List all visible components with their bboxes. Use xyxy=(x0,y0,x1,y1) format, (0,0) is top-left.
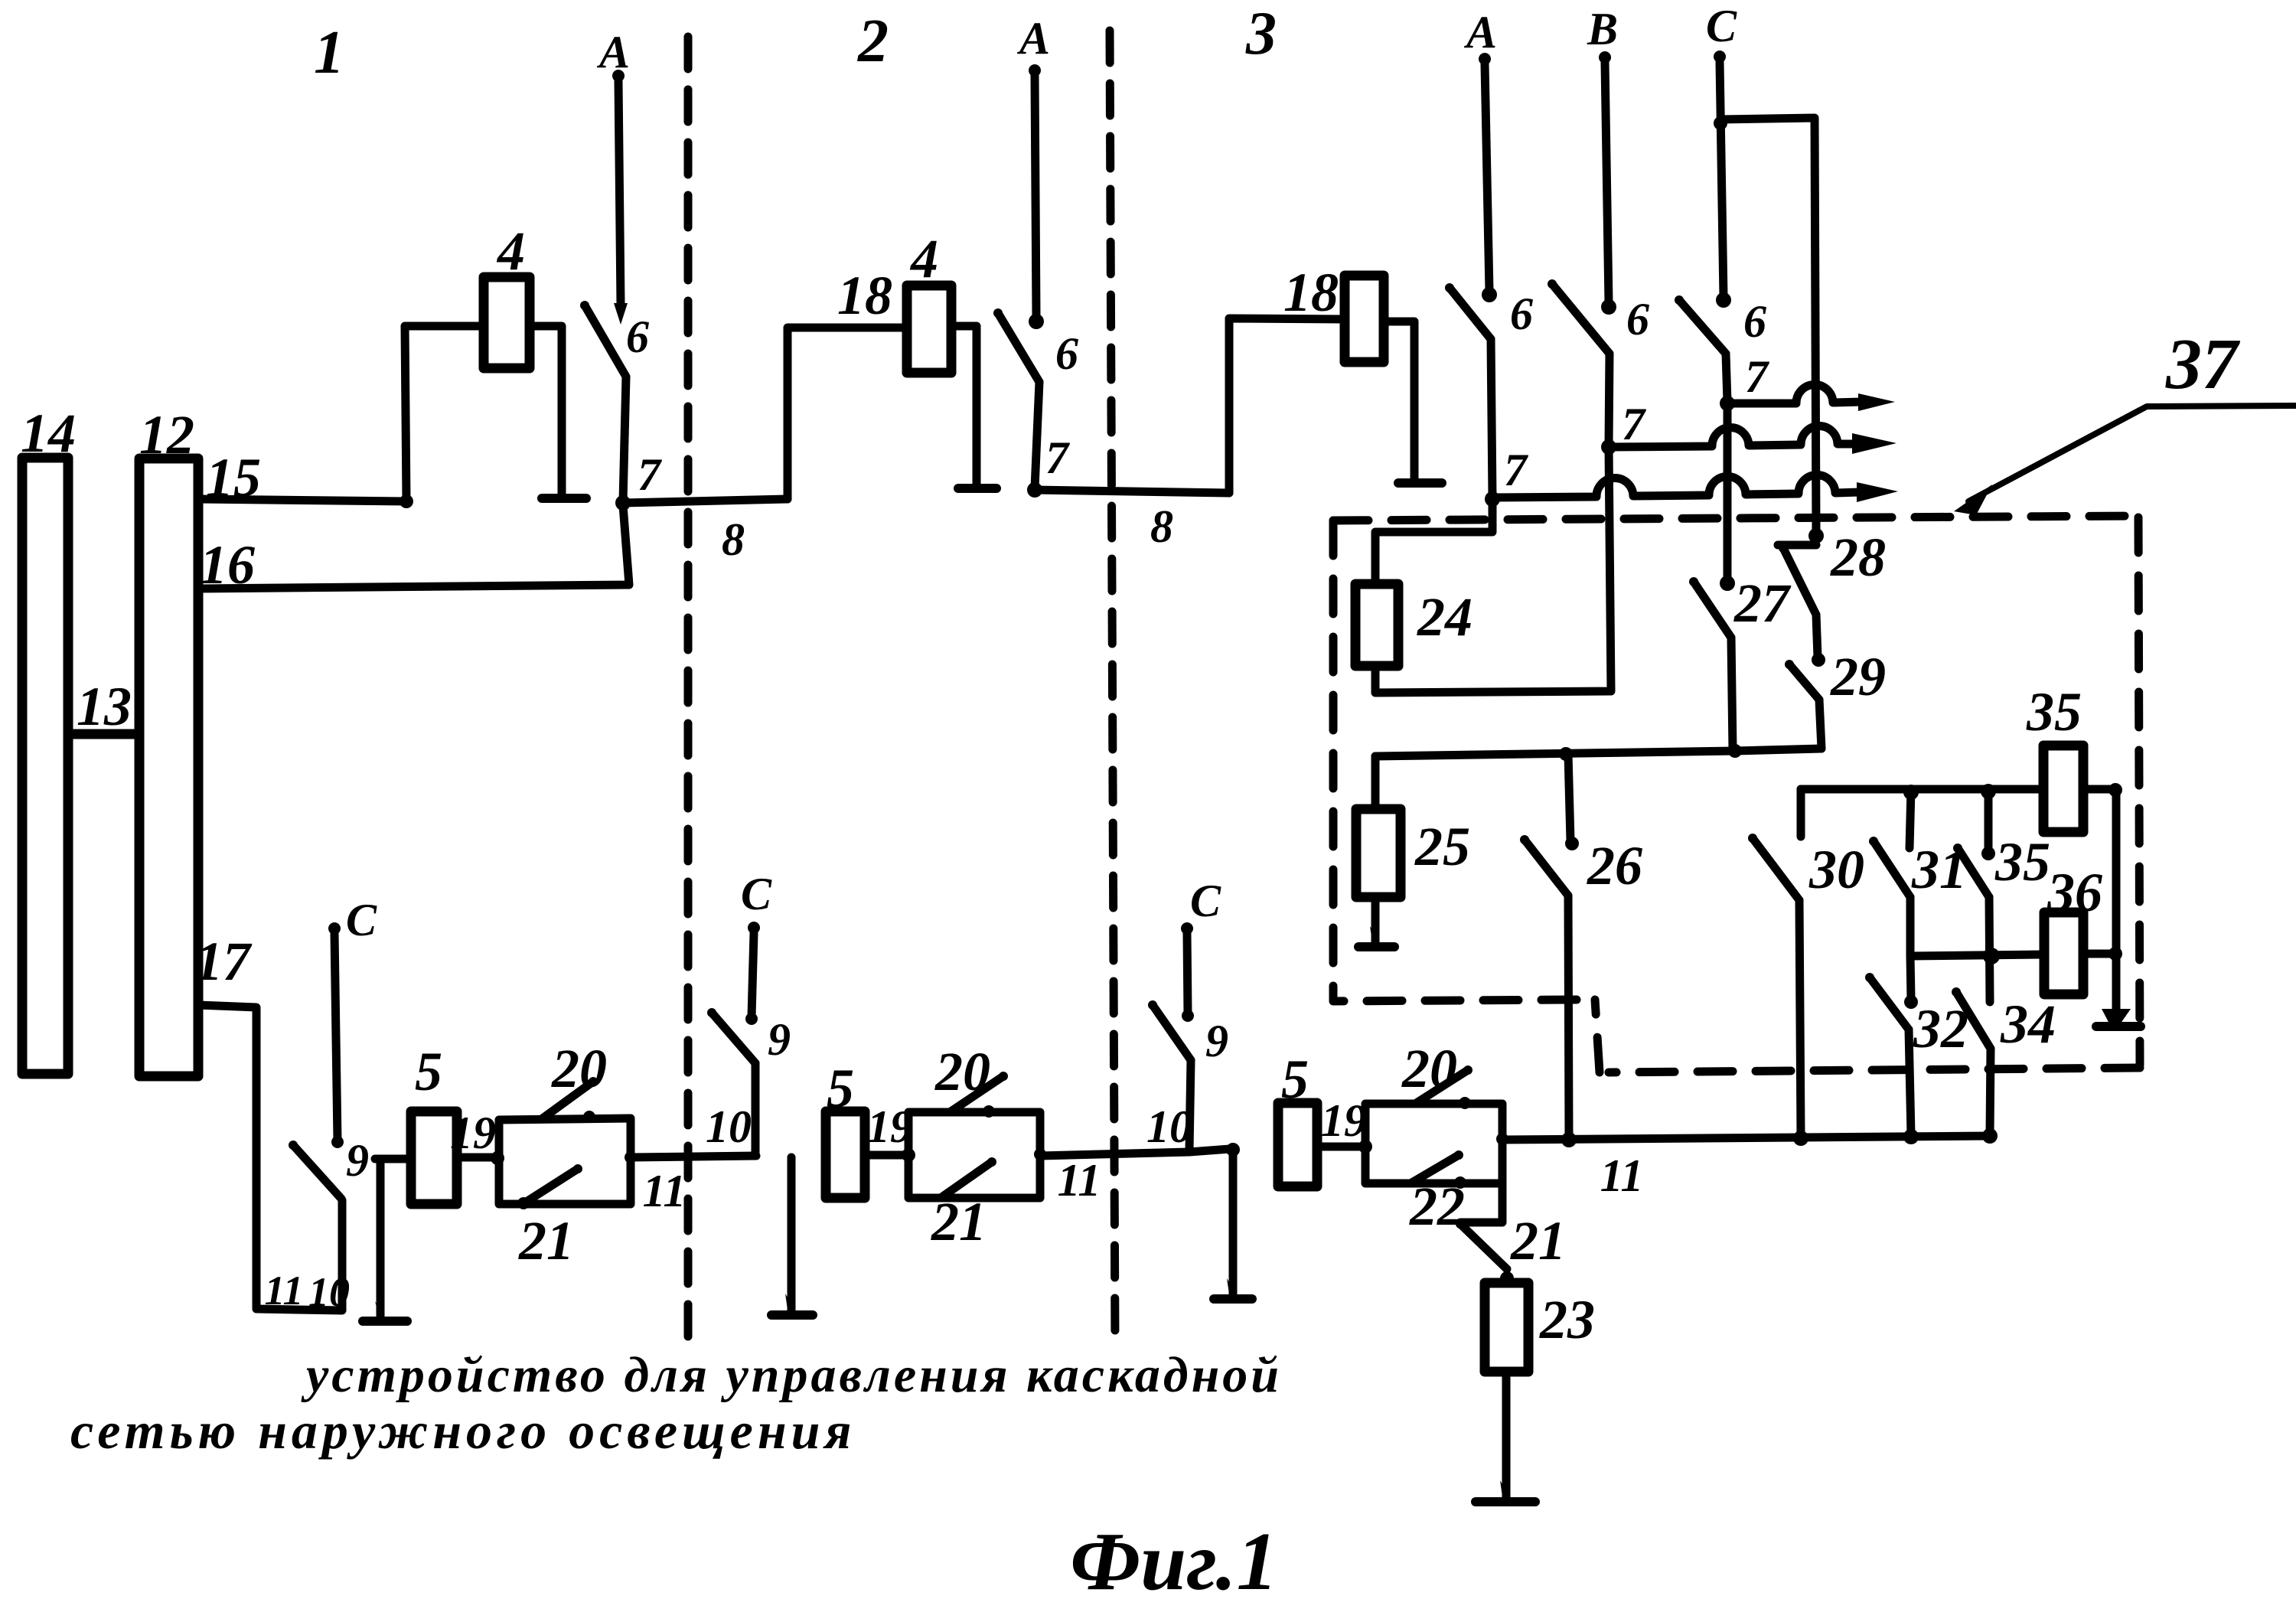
switch 6C blade xyxy=(1679,300,1726,354)
node 19 section 2 xyxy=(902,1148,915,1162)
switch 28 blade xyxy=(1783,548,1816,615)
node 26 junction xyxy=(1559,747,1573,761)
wire 8 section 1-2 xyxy=(623,499,788,503)
contact 21 section 3 xyxy=(1500,1271,1514,1285)
block 12 xyxy=(139,458,198,1076)
switch 27 blade xyxy=(1694,582,1731,638)
switch 30 lead xyxy=(1799,900,1801,1137)
arrowhead A section 1 xyxy=(614,303,628,325)
svg-text:C: C xyxy=(1190,876,1221,926)
node 33-36 xyxy=(1983,948,2000,964)
node 19 section 1 xyxy=(491,1151,504,1165)
dashed box 37 jog xyxy=(1595,1000,1600,1072)
svg-text:3: 3 xyxy=(1245,0,1277,67)
wire 36 bus xyxy=(1910,955,2044,956)
switch 9 section 2 lead xyxy=(752,1063,760,1154)
contact dot 27 xyxy=(1720,576,1735,591)
svg-text:8: 8 xyxy=(722,514,745,565)
switch 6 section 2 lead xyxy=(1035,382,1039,488)
svg-text:28: 28 xyxy=(1830,527,1886,588)
svg-text:4: 4 xyxy=(909,228,938,289)
node 36 right xyxy=(2108,947,2122,961)
link 13 xyxy=(68,729,139,739)
contact dot 9 section 2 xyxy=(745,1013,758,1025)
svg-text:20: 20 xyxy=(551,1038,607,1099)
wire 31 stem xyxy=(1910,789,1911,848)
contact dot 6A xyxy=(1482,287,1497,302)
svg-text:19: 19 xyxy=(450,1108,496,1158)
svg-text:20: 20 xyxy=(1401,1038,1457,1099)
switch 9 section 1 blade xyxy=(293,1145,341,1199)
contact dot 6B xyxy=(1601,299,1616,315)
ground bar section 3 top xyxy=(1398,478,1442,488)
node 7A xyxy=(1485,491,1500,507)
svg-text:35: 35 xyxy=(2026,681,2082,742)
switch 6A lead xyxy=(1491,339,1492,498)
phase C lead section 3 xyxy=(1187,934,1188,1013)
relay coil 4 section 2 xyxy=(907,286,951,373)
svg-text:18: 18 xyxy=(1283,262,1339,323)
svg-text:19: 19 xyxy=(1321,1095,1367,1146)
contact dot 9 section 3 xyxy=(1182,1010,1194,1022)
switch 6 section 2 blade xyxy=(998,313,1039,382)
svg-text:7: 7 xyxy=(638,449,662,500)
svg-text:22: 22 xyxy=(1409,1176,1465,1237)
node 32-11 xyxy=(1903,1129,1919,1144)
dashed box 37 top xyxy=(1333,516,2137,520)
terminal C section 2 xyxy=(748,922,760,934)
contact 20 section 1 xyxy=(583,1111,595,1123)
svg-text:4: 4 xyxy=(496,220,525,282)
node 7 section 2 xyxy=(1027,482,1042,498)
wire 18 riser section 3 xyxy=(1229,318,1345,493)
ground stem section 1 xyxy=(377,1159,385,1318)
switch 9 section 3 blade xyxy=(1153,1005,1191,1060)
svg-text:17: 17 xyxy=(195,931,253,992)
node 31 rail xyxy=(1903,785,1919,800)
wire 17 xyxy=(198,1005,342,1310)
relay coil 4 section 1 xyxy=(484,277,530,368)
phase A lead section 2 xyxy=(1035,76,1036,315)
svg-text:36: 36 xyxy=(2047,862,2102,923)
switch block section 1 frame xyxy=(499,1118,631,1204)
element 23 xyxy=(1485,1283,1528,1372)
svg-text:9: 9 xyxy=(768,1014,791,1065)
wire 35 right lead xyxy=(2083,785,2117,794)
svg-text:11: 11 xyxy=(643,1166,687,1216)
node 19 section 3 xyxy=(1358,1140,1372,1154)
switch block section 3 frame xyxy=(1365,1104,1502,1183)
contact dot 6C xyxy=(1716,292,1731,308)
switch 33 blade xyxy=(1958,848,1989,897)
relay coil 18 section 3 xyxy=(1345,276,1384,362)
arrow row 2 xyxy=(1852,433,1896,454)
switch 34 lead xyxy=(1990,1049,1991,1134)
terminal A section 1 xyxy=(612,70,625,82)
dashed box 37 bottom right xyxy=(1609,1068,2140,1072)
ground wire section 1 xyxy=(375,1155,411,1163)
svg-text:30: 30 xyxy=(1808,839,1864,900)
svg-text:27: 27 xyxy=(1733,573,1792,634)
terminal C phase xyxy=(1714,51,1726,63)
node 7C xyxy=(1720,396,1735,411)
output wire row 2 xyxy=(1609,426,1855,447)
svg-text:9: 9 xyxy=(346,1135,369,1186)
switch 30 blade xyxy=(1753,838,1799,900)
switch 20 section 1 blade xyxy=(543,1082,593,1118)
wire 25 bus xyxy=(1375,749,1821,756)
svg-text:21: 21 xyxy=(931,1191,987,1252)
element 35 xyxy=(2043,746,2083,832)
switch block section 2 frame xyxy=(908,1112,1040,1198)
svg-text:9: 9 xyxy=(1205,1016,1228,1066)
element 36 xyxy=(2044,912,2083,994)
switch 6A blade xyxy=(1450,288,1491,339)
svg-text:C: C xyxy=(1706,1,1737,51)
switch 21 section 3 blade xyxy=(1460,1224,1507,1269)
switch 26 blade xyxy=(1525,840,1568,896)
wire 11 section 3 output xyxy=(1496,1133,1508,1145)
switch 34 blade xyxy=(1956,992,1991,1049)
node on wire 15 xyxy=(400,494,413,508)
wire C to 28 xyxy=(1720,118,1816,533)
output wire row 3 xyxy=(1492,475,1860,498)
svg-text:11: 11 xyxy=(264,1268,303,1313)
dashed box 37 bottom left xyxy=(1333,1000,1577,1001)
ground stem 36 xyxy=(2112,789,2121,1018)
svg-text:A: A xyxy=(596,27,630,77)
contact dot section 2 xyxy=(1029,314,1044,329)
wire 24 to 7B xyxy=(1375,447,1611,693)
svg-text:B: B xyxy=(1587,4,1618,54)
phase A lead xyxy=(1485,64,1489,291)
svg-text:24: 24 xyxy=(1417,586,1473,648)
ground 36 xyxy=(2096,1022,2141,1031)
switch 26 lead xyxy=(1568,896,1569,1138)
switch 27 lead xyxy=(1731,638,1733,750)
svg-text:11: 11 xyxy=(1600,1150,1644,1201)
wire 11 section 1 output xyxy=(625,1151,637,1163)
svg-text:29: 29 xyxy=(1830,646,1886,707)
svg-text:11: 11 xyxy=(1058,1155,1101,1206)
node 7B xyxy=(1601,439,1616,455)
switch 32 lead xyxy=(1909,1030,1911,1135)
wire 25 drop xyxy=(1371,756,1380,809)
svg-text:10: 10 xyxy=(308,1269,350,1315)
wire 33 stem xyxy=(1985,789,1993,850)
svg-text:10: 10 xyxy=(1146,1101,1192,1152)
terminal B phase xyxy=(1599,51,1611,64)
contact 22 section 3 xyxy=(1454,1176,1466,1189)
relay 4 section 2 right lead xyxy=(951,326,977,485)
switch 20 section 3 blade xyxy=(1415,1070,1468,1104)
contact dot 28 xyxy=(1808,528,1824,543)
wire 21 drop section 3 xyxy=(1460,1183,1502,1222)
dashed divider 2-3 xyxy=(1110,31,1115,1346)
wire 32 stem xyxy=(1910,956,1911,999)
arrow row 1 xyxy=(1858,393,1895,411)
svg-text:6: 6 xyxy=(1055,328,1078,379)
wire 19 section 1 xyxy=(457,1154,499,1162)
node 35 right xyxy=(2108,783,2122,797)
svg-text:15: 15 xyxy=(206,447,261,508)
wire 16 xyxy=(198,505,629,589)
svg-text:37: 37 xyxy=(2165,325,2241,404)
switch 21 section 2 blade xyxy=(941,1162,992,1198)
svg-text:7: 7 xyxy=(1504,445,1528,495)
switch 28 lead xyxy=(1816,615,1818,657)
ground section 3 xyxy=(1214,1294,1252,1304)
svg-text:7: 7 xyxy=(1745,351,1769,402)
svg-text:10: 10 xyxy=(706,1101,752,1152)
wire 7A to 24 xyxy=(1375,499,1492,584)
switch 20 section 2 blade xyxy=(950,1076,1003,1112)
svg-text:21: 21 xyxy=(518,1210,574,1271)
svg-text:6: 6 xyxy=(1510,289,1533,339)
switch 6B blade xyxy=(1552,284,1609,354)
svg-text:6: 6 xyxy=(1626,294,1649,344)
svg-text:C: C xyxy=(741,869,772,919)
element 25 xyxy=(1356,809,1401,897)
contact 20 section 2 xyxy=(983,1105,995,1118)
node C branch xyxy=(1714,116,1727,130)
svg-text:1: 1 xyxy=(314,19,344,86)
contact dot 26 xyxy=(1565,837,1579,850)
terminal C section 3 xyxy=(1181,922,1193,935)
switch 9 section 3 lead xyxy=(1189,1060,1191,1150)
arrow row 3 xyxy=(1857,482,1898,502)
svg-text:7: 7 xyxy=(1622,399,1646,449)
svg-text:23: 23 xyxy=(1539,1289,1595,1350)
node 7 section 1 xyxy=(615,495,631,511)
contact dot 32 xyxy=(1904,995,1918,1009)
wire 26 stem xyxy=(1568,754,1570,840)
contact 21 section 1 xyxy=(517,1197,530,1209)
phase A lead section 1 xyxy=(618,81,621,305)
ground stem 25 xyxy=(1371,897,1380,944)
switch 6 section 1 blade xyxy=(585,305,626,377)
phase C lead xyxy=(1720,62,1724,297)
contact dot 9 section 1 xyxy=(331,1136,344,1148)
wire 30 stem xyxy=(1797,789,1805,837)
contact dot 29 xyxy=(1812,653,1825,667)
element 24 xyxy=(1355,584,1398,666)
switch 6 section 1 lead xyxy=(623,377,626,501)
ground section 1 xyxy=(363,1317,407,1326)
svg-text:14: 14 xyxy=(21,403,76,464)
svg-text:35: 35 xyxy=(1994,831,2050,893)
switch 31 lead xyxy=(1906,897,1915,955)
switch 32 blade xyxy=(1870,977,1909,1030)
svg-text:7: 7 xyxy=(1045,432,1070,483)
wire 15 xyxy=(198,499,406,501)
svg-text:25: 25 xyxy=(1414,816,1470,877)
node 27 junction xyxy=(1728,744,1742,758)
relay 18 section 3 right lead xyxy=(1384,321,1414,480)
wire 11 section 2 output xyxy=(1034,1148,1046,1160)
element 5 section 1 xyxy=(411,1111,457,1204)
switch 9 section 2 blade xyxy=(712,1013,755,1063)
svg-text:21: 21 xyxy=(1510,1210,1566,1271)
svg-text:Фиг.1: Фиг.1 xyxy=(1070,1516,1277,1599)
svg-text:устройство для управления ка: устройство для управления каскадной xyxy=(301,1347,1282,1403)
ground stem section 3 xyxy=(1229,1150,1238,1296)
wire relay4-1 left lead xyxy=(405,326,484,501)
phase B lead xyxy=(1605,63,1609,303)
pointer 37 xyxy=(1968,406,2296,501)
switch 6C lead xyxy=(1726,354,1727,402)
svg-text:5: 5 xyxy=(1281,1049,1309,1110)
svg-text:34: 34 xyxy=(2000,994,2056,1055)
terminal A phase xyxy=(1479,53,1491,65)
wire 36 right lead xyxy=(2083,950,2117,958)
svg-text:12: 12 xyxy=(139,404,194,465)
node 26-11 xyxy=(1561,1132,1577,1147)
node 34-11 xyxy=(1982,1128,1998,1144)
switch 29 lead xyxy=(1819,700,1821,749)
wire 8 riser section 2 xyxy=(788,328,907,499)
output wire row 1 xyxy=(1727,384,1861,403)
svg-text:A: A xyxy=(1463,7,1497,57)
node 30-11 xyxy=(1793,1131,1808,1146)
switch 6B lead xyxy=(1609,354,1609,445)
ground section 2 xyxy=(771,1310,813,1320)
element 5 section 2 xyxy=(826,1111,865,1198)
svg-text:C: C xyxy=(346,895,377,945)
wire 19 section 2 xyxy=(865,1151,908,1160)
terminal C section 1 xyxy=(328,922,341,935)
wire 19 section 3 xyxy=(1317,1143,1365,1151)
svg-text:8: 8 xyxy=(1150,501,1173,552)
phase C lead section 1 xyxy=(334,934,338,1141)
ground stem 23 xyxy=(1502,1372,1511,1499)
svg-text:6: 6 xyxy=(1743,296,1766,347)
svg-text:32: 32 xyxy=(1913,998,1968,1059)
svg-text:5: 5 xyxy=(415,1041,442,1102)
arrowhead 37 xyxy=(1954,485,1992,515)
svg-text:2: 2 xyxy=(857,8,889,75)
ground bar section 2 top xyxy=(958,484,996,493)
contact bar xyxy=(542,494,586,503)
dashed divider 1-2 xyxy=(684,37,693,1338)
wire 8 section 2-3 xyxy=(1035,490,1229,493)
ground stem section 2 xyxy=(788,1157,796,1312)
svg-text:сетью наружного освещения: сетью наружного освещения xyxy=(70,1402,856,1460)
contact 20 section 3 xyxy=(1459,1097,1471,1109)
svg-text:A: A xyxy=(1016,13,1050,64)
bar 28 xyxy=(1778,541,1816,550)
svg-text:18: 18 xyxy=(837,265,892,326)
ground 25 xyxy=(1358,942,1394,951)
wire relay4-1 right lead xyxy=(530,326,562,497)
rail 30-35 xyxy=(1801,785,2043,794)
wire 27 stem xyxy=(1724,403,1732,582)
element 5 section 3 xyxy=(1278,1103,1317,1186)
switch 21 section 1 blade xyxy=(523,1169,578,1204)
terminal A section 2 xyxy=(1029,64,1041,77)
svg-text:13: 13 xyxy=(77,676,132,737)
switch 22 section 3 blade xyxy=(1411,1155,1459,1183)
block 14 xyxy=(22,458,68,1074)
switch 33 lead xyxy=(1989,897,1990,1002)
ground 23 xyxy=(1476,1497,1535,1506)
node ground section 3 xyxy=(1226,1143,1240,1157)
svg-text:20: 20 xyxy=(934,1041,990,1102)
node 33 rail xyxy=(1981,784,1996,799)
switch 29 blade xyxy=(1789,664,1819,700)
switch 31 blade xyxy=(1874,841,1910,897)
svg-text:6: 6 xyxy=(626,312,649,362)
phase C lead section 2 xyxy=(752,933,754,1017)
svg-text:16: 16 xyxy=(200,534,255,596)
contact dot 33 xyxy=(1981,847,1995,860)
dashed box 37 left xyxy=(1329,520,1338,1000)
svg-text:5: 5 xyxy=(827,1058,854,1119)
svg-text:26: 26 xyxy=(1587,835,1642,896)
dashed box 37 right xyxy=(2138,517,2140,1065)
